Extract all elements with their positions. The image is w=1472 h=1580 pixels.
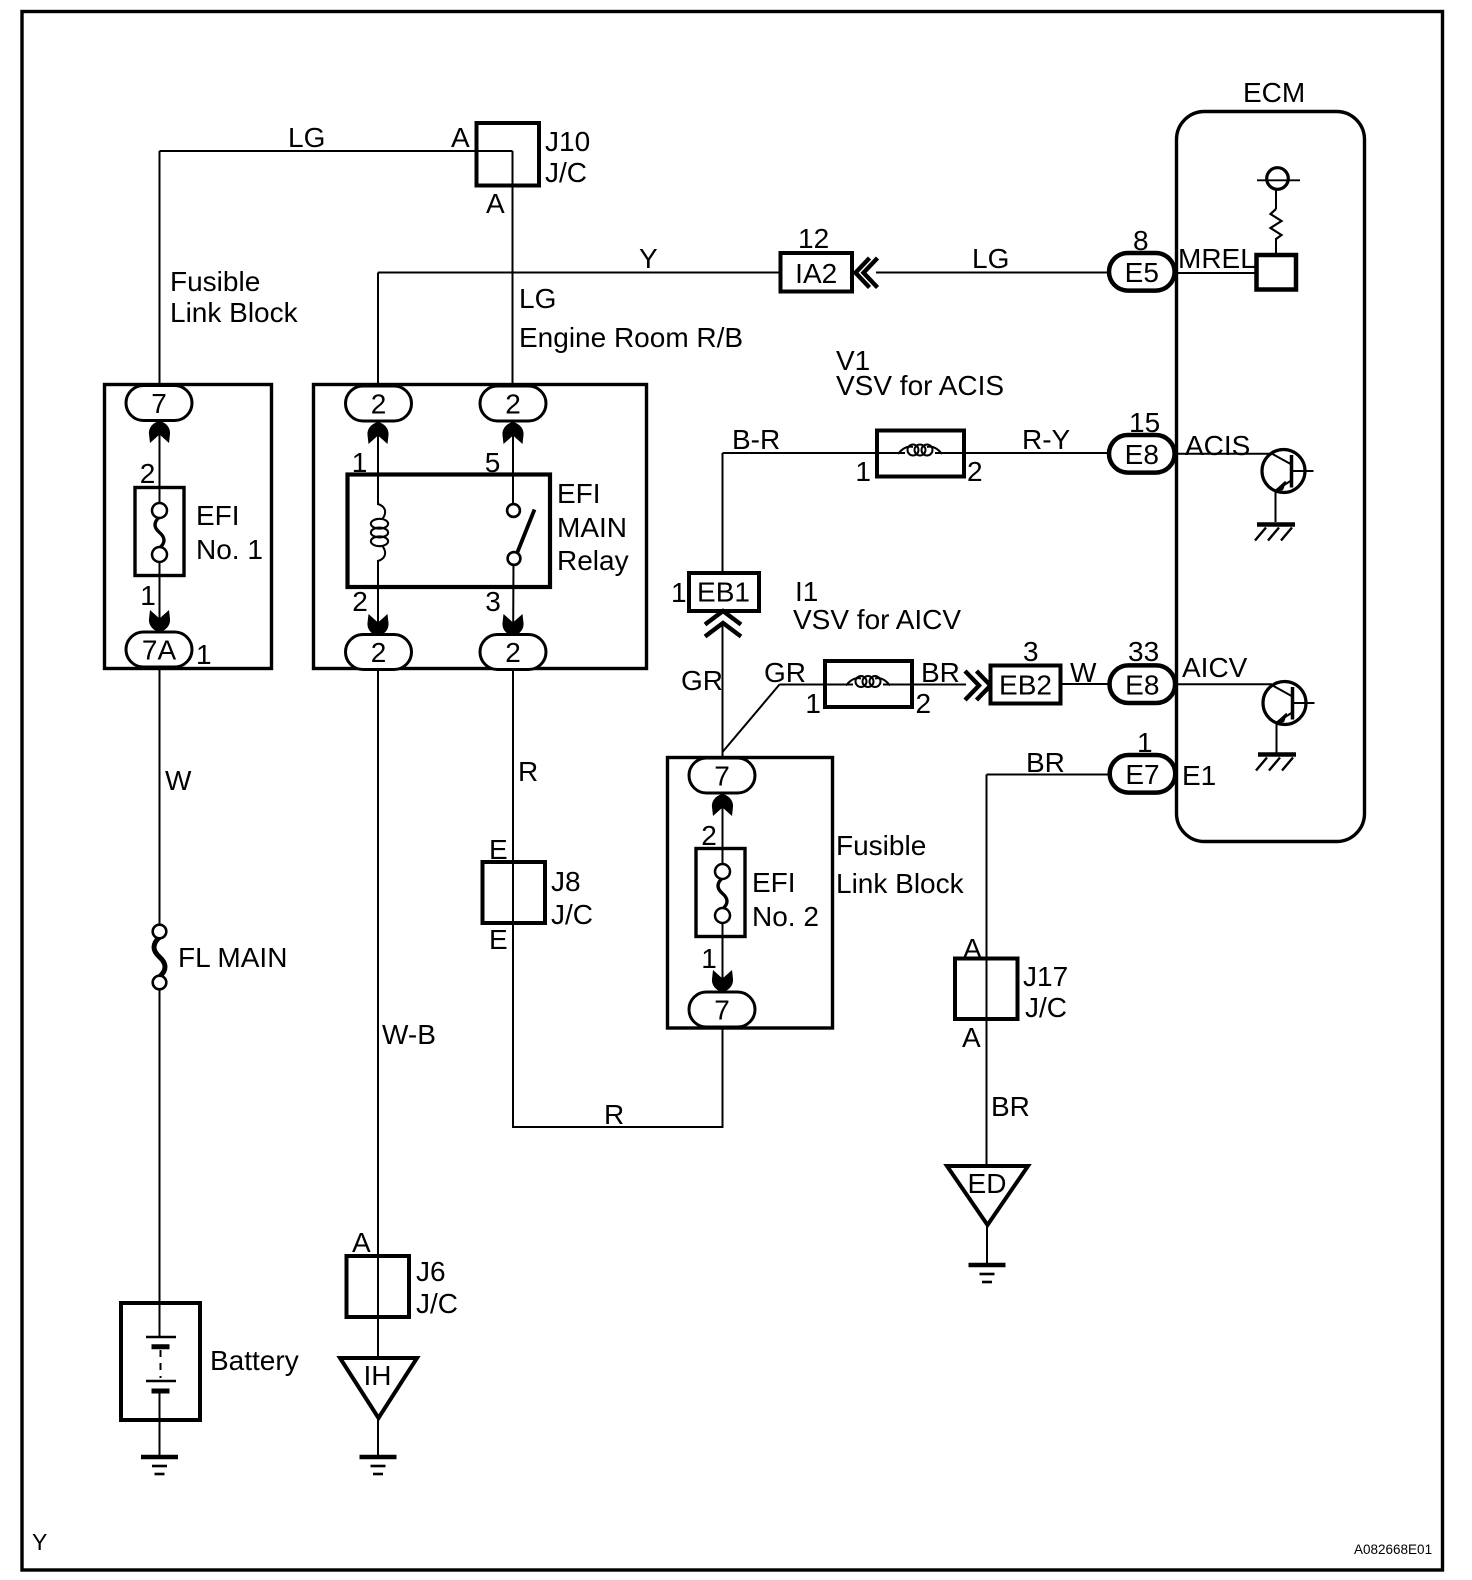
ground below ED — [969, 1263, 1006, 1268]
pin 33 connector E8 — [1110, 665, 1176, 703]
svg-text:2: 2 — [371, 637, 387, 668]
svg-text:FL MAIN: FL MAIN — [178, 942, 287, 973]
svg-text:A: A — [962, 1022, 981, 1053]
Engine Room R/B block — [314, 385, 647, 669]
svg-text:A: A — [451, 122, 470, 153]
node 2 oval ERB bottom-right — [480, 635, 546, 670]
EFI MAIN relay box — [348, 475, 551, 588]
svg-text:No. 2: No. 2 — [752, 901, 819, 932]
VSV I1 solenoid — [825, 661, 912, 707]
svg-text:A: A — [352, 1227, 371, 1258]
svg-text:7: 7 — [151, 388, 167, 419]
svg-text:Engine Room R/B: Engine Room R/B — [519, 322, 743, 353]
svg-text:W-B: W-B — [382, 1019, 436, 1050]
chevron junction before EB2 — [965, 671, 979, 700]
svg-text:J/C: J/C — [1025, 992, 1067, 1023]
ground triangle IH — [340, 1358, 417, 1418]
arrow up ERB left — [367, 422, 388, 444]
svg-text:VSV for AICV: VSV for AICV — [793, 604, 961, 635]
svg-text:IA2: IA2 — [795, 258, 837, 289]
svg-text:J6: J6 — [416, 1256, 446, 1287]
svg-text:7A: 7A — [142, 635, 177, 666]
svg-text:E5: E5 — [1125, 257, 1159, 288]
svg-text:33: 33 — [1128, 636, 1159, 667]
arrow up FLB2 — [712, 794, 733, 816]
svg-text:Link Block: Link Block — [836, 868, 965, 899]
svg-text:3: 3 — [1023, 636, 1039, 667]
Fusible Link Block No.2 — [668, 758, 833, 1029]
svg-text:J10: J10 — [545, 126, 590, 157]
svg-text:R: R — [518, 756, 538, 787]
Fusible Link Block No.1 — [105, 385, 272, 669]
svg-text:J/C: J/C — [551, 899, 593, 930]
ground below IH — [360, 1455, 397, 1460]
wire R horizontal — [512, 1126, 724, 1128]
ground hatched AICV — [1258, 752, 1296, 757]
wire W-B from ERB to J6 to IH — [377, 668, 379, 1358]
MREL driver circuit inside ECM — [1267, 168, 1289, 190]
svg-text:AICV: AICV — [1182, 652, 1248, 683]
battery — [121, 1303, 200, 1420]
ground below battery — [141, 1455, 178, 1460]
node 7 oval FLB2 bottom — [689, 992, 755, 1027]
svg-text:2: 2 — [967, 456, 983, 487]
svg-text:15: 15 — [1129, 407, 1160, 438]
wire W FLB1 to FL MAIN to battery — [159, 667, 161, 927]
svg-text:2: 2 — [352, 586, 368, 617]
svg-text:EFI: EFI — [752, 867, 796, 898]
svg-text:7: 7 — [714, 995, 730, 1026]
ground triangle ED — [947, 1166, 1028, 1225]
wire FLB2 internal — [722, 790, 724, 873]
arrow down FLB2 — [712, 970, 733, 992]
wire R-Y from V1 to E8 — [965, 452, 1110, 454]
fuse EFI No.1 — [135, 488, 184, 576]
svg-text:Link Block: Link Block — [170, 297, 299, 328]
svg-text:Relay: Relay — [557, 545, 629, 576]
svg-text:R: R — [604, 1099, 624, 1130]
svg-text:Fusible: Fusible — [836, 830, 926, 861]
svg-text:Battery: Battery — [210, 1345, 299, 1376]
svg-text:MAIN: MAIN — [557, 512, 627, 543]
svg-text:1: 1 — [671, 577, 687, 608]
svg-text:2: 2 — [701, 820, 717, 851]
node 7A oval FLB1 — [126, 632, 192, 667]
wire B-R vertical EB1 — [722, 453, 724, 573]
svg-text:ACIS: ACIS — [1185, 430, 1250, 461]
pin 1 connector E7 — [1110, 755, 1176, 793]
svg-text:3: 3 — [485, 586, 501, 617]
wire ACIS from E8 to transistor — [1174, 453, 1271, 455]
transistor driver ACIS — [1262, 450, 1305, 493]
svg-text:W: W — [165, 765, 192, 796]
ground hatched ACIS — [1257, 522, 1295, 527]
svg-text:1: 1 — [805, 688, 821, 719]
wire ERB left internal — [377, 419, 379, 505]
svg-text:7: 7 — [714, 761, 730, 792]
svg-text:E7: E7 — [1125, 759, 1159, 790]
svg-text:EB2: EB2 — [999, 670, 1052, 701]
svg-text:VSV for ACIS: VSV for ACIS — [836, 370, 1004, 401]
svg-text:2: 2 — [505, 389, 521, 420]
svg-text:2: 2 — [916, 688, 932, 719]
svg-text:Fusible: Fusible — [170, 266, 260, 297]
svg-text:2: 2 — [505, 637, 521, 668]
svg-text:12: 12 — [798, 223, 829, 254]
arrow up ERB right — [502, 422, 523, 444]
wire AICV from E8 to transistor — [1175, 683, 1272, 685]
svg-text:R-Y: R-Y — [1022, 424, 1071, 455]
svg-text:LG: LG — [288, 122, 325, 153]
wire LG horizontal to J10 — [160, 150, 513, 152]
wire battery to ground — [159, 1392, 161, 1456]
svg-text:1: 1 — [140, 580, 156, 611]
fusible link FL MAIN — [154, 937, 165, 976]
svg-text:E: E — [489, 924, 508, 955]
svg-text:ECM: ECM — [1243, 77, 1305, 108]
wire R from ERB down through J8 — [512, 668, 514, 1127]
wire ERB right internal — [512, 419, 514, 511]
node 2 oval ERB top-right — [480, 386, 546, 421]
wire BR from I1 to EB2 chevron — [913, 684, 966, 686]
wire LG vertical to Fusible Link Block No.1 — [159, 151, 161, 388]
svg-text:A082668E01: A082668E01 — [1354, 1542, 1432, 1557]
svg-text:Y: Y — [32, 1529, 47, 1555]
arrow up FLB1 — [149, 421, 170, 443]
svg-text:Y: Y — [639, 243, 658, 274]
wire FLB1 internal — [159, 419, 161, 512]
svg-text:E1: E1 — [1182, 760, 1216, 791]
VSV V1 solenoid — [877, 431, 964, 477]
node 2 oval ERB top-left — [346, 386, 412, 421]
svg-text:LG: LG — [519, 283, 556, 314]
wire GR from chevron to FLB2 top pin 7 — [722, 626, 724, 762]
svg-text:W: W — [1070, 657, 1097, 688]
relay coil — [378, 504, 385, 520]
svg-text:2: 2 — [371, 389, 387, 420]
ECM enclosure — [1177, 112, 1365, 842]
svg-text:EFI: EFI — [196, 500, 240, 531]
node 7 oval FLB2 top — [689, 758, 755, 793]
pin 8 connector E5 — [1109, 253, 1175, 291]
svg-text:EFI: EFI — [557, 478, 601, 509]
wire Y from relay coil to IA2 — [378, 272, 780, 274]
svg-text:8: 8 — [1133, 225, 1149, 256]
svg-text:IH: IH — [364, 1360, 392, 1391]
svg-text:I1: I1 — [795, 576, 818, 607]
wire A from J10 down to Engine Room R/B — [512, 151, 514, 388]
arrow down ERB left — [367, 614, 388, 636]
fuse EFI No.2 — [696, 849, 745, 937]
svg-text:BR: BR — [991, 1091, 1030, 1122]
svg-text:LG: LG — [972, 243, 1009, 274]
svg-text:1: 1 — [701, 943, 717, 974]
wire W from EB2 to E8 — [1060, 683, 1110, 685]
wire BR down to J17 — [986, 775, 988, 959]
relay switch — [507, 504, 520, 517]
arrow down ERB right — [502, 614, 523, 636]
wire GR horizontal to VSV I1 — [780, 684, 825, 686]
arrow down FLB1 — [149, 610, 170, 632]
wire E5 to MREL driver — [1174, 272, 1257, 274]
svg-text:2: 2 — [140, 458, 156, 489]
svg-text:B-R: B-R — [732, 424, 780, 455]
svg-text:1: 1 — [855, 456, 871, 487]
wire LG from IA2 chevron to E5 — [876, 272, 1110, 274]
svg-text:BR: BR — [1026, 747, 1065, 778]
svg-text:J/C: J/C — [545, 157, 587, 188]
node 7 oval FLB1 — [126, 386, 192, 421]
wire IH to ground — [377, 1418, 379, 1457]
svg-text:No. 1: No. 1 — [196, 534, 263, 565]
node 2 oval ERB bottom-left — [346, 635, 412, 670]
svg-text:GR: GR — [764, 657, 806, 688]
svg-text:BR: BR — [921, 657, 960, 688]
svg-text:MREL: MREL — [1178, 243, 1256, 274]
junction connector J10 — [477, 123, 540, 186]
wire BR from E7 left — [987, 774, 1111, 776]
svg-text:E8: E8 — [1125, 439, 1159, 470]
svg-text:EB1: EB1 — [697, 577, 750, 608]
svg-text:E8: E8 — [1125, 669, 1159, 700]
svg-text:J/C: J/C — [416, 1288, 458, 1319]
transistor driver AICV — [1263, 682, 1306, 725]
chevron junction below EB1 — [705, 611, 741, 625]
wire R up to FLB2 bottom pin 7 — [722, 1027, 724, 1128]
wire BR from J17 to ED — [986, 1019, 988, 1166]
svg-text:A: A — [486, 188, 505, 219]
svg-text:GR: GR — [681, 665, 723, 696]
svg-text:J17: J17 — [1023, 961, 1068, 992]
wire GR diagonal — [723, 685, 780, 753]
chevron junction right of IA2 — [856, 258, 870, 288]
wire up from ERB left pin 2 — [377, 273, 379, 389]
wire ED to ground — [986, 1225, 988, 1264]
svg-text:J8: J8 — [551, 866, 581, 897]
svg-text:ED: ED — [968, 1168, 1007, 1199]
svg-text:1: 1 — [1137, 727, 1153, 758]
pin 15 connector E8 — [1109, 435, 1175, 473]
wire B-R horizontal to VSV V1 — [723, 452, 877, 454]
svg-text:1: 1 — [196, 639, 212, 670]
